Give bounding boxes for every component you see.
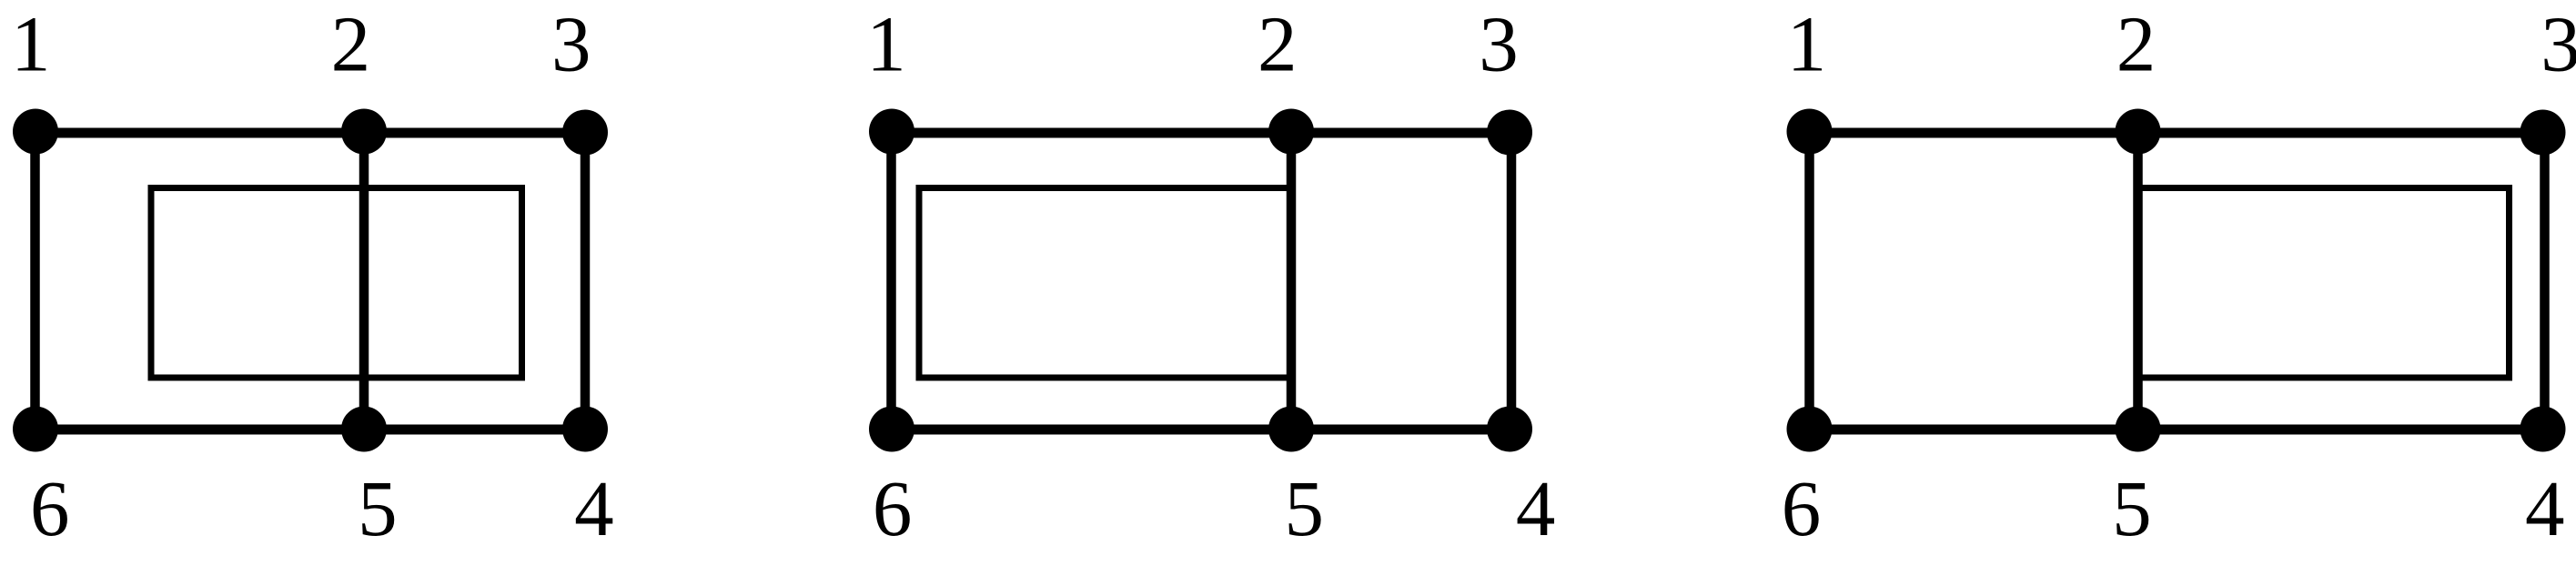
svg-text:2: 2 (2116, 0, 2157, 88)
node 3 (right graph) (2520, 110, 2566, 156)
svg-text:3: 3 (551, 0, 591, 88)
svg-text:5: 5 (1284, 464, 1324, 552)
node 5 (middle graph) (1268, 407, 1314, 452)
svg-text:1: 1 (1787, 0, 1827, 88)
svg-text:4: 4 (574, 464, 614, 552)
edge 1-6 (middle graph) (886, 133, 896, 430)
edge 1-2-3 (top, left graph) (35, 128, 586, 138)
svg-text:5: 5 (358, 464, 398, 552)
node 5 (left graph) (341, 407, 387, 452)
node 4 (middle graph) (1487, 407, 1532, 452)
svg-text:1: 1 (11, 0, 51, 88)
node 5 (right graph) (2116, 407, 2161, 452)
svg-text:4: 4 (2525, 464, 2565, 552)
edge 3-4 (right graph) (2540, 133, 2550, 430)
svg-text:3: 3 (1479, 0, 1519, 88)
node 1 (middle graph) (869, 109, 914, 155)
node 6 (left graph) (13, 407, 58, 452)
inner thin rectangle (middle graph) (919, 188, 1291, 379)
node 1 (left graph) (13, 109, 58, 155)
edge 1-2-3 (top, right graph) (1810, 128, 2544, 138)
node 2 (left graph) (341, 109, 387, 155)
node 1 (right graph) (1787, 109, 1833, 155)
edge 6-5-4 (bottom, right graph) (1810, 425, 2544, 435)
edge 6-5-4 (bottom, left graph) (35, 425, 586, 435)
node 2 (right graph) (2116, 109, 2161, 155)
inner thin rectangle (left graph) (151, 188, 522, 379)
edge 3-4 (middle graph) (1507, 133, 1517, 430)
node 6 (middle graph) (869, 407, 914, 452)
edge 1-2-3 (top, middle graph) (892, 128, 1511, 138)
node 3 (middle graph) (1487, 110, 1532, 156)
edge 2-5 (right graph) (2133, 133, 2143, 430)
svg-text:6: 6 (873, 464, 913, 552)
svg-text:3: 3 (2541, 0, 2576, 88)
edge 1-6 (right graph) (1804, 133, 1814, 430)
node 4 (left graph) (562, 407, 608, 452)
svg-text:5: 5 (2112, 464, 2152, 552)
edge 2-5 (middle graph) (1287, 133, 1297, 430)
svg-text:4: 4 (1516, 464, 1556, 552)
svg-text:2: 2 (1258, 0, 1298, 88)
edge 2-5 (left graph) (359, 133, 369, 430)
node 4 (right graph) (2520, 407, 2566, 452)
svg-text:6: 6 (30, 464, 70, 552)
inner thin rectangle (right graph) (2138, 188, 2510, 379)
node 2 (middle graph) (1268, 109, 1314, 155)
svg-text:1: 1 (866, 0, 906, 88)
svg-text:2: 2 (331, 0, 371, 88)
node 3 (left graph) (562, 110, 608, 156)
svg-text:6: 6 (1782, 464, 1822, 552)
node 6 (right graph) (1787, 407, 1833, 452)
edge 6-5-4 (bottom, middle graph) (892, 425, 1511, 435)
edge 1-6 (left graph) (30, 133, 40, 430)
edge 3-4 (left graph) (581, 133, 591, 430)
